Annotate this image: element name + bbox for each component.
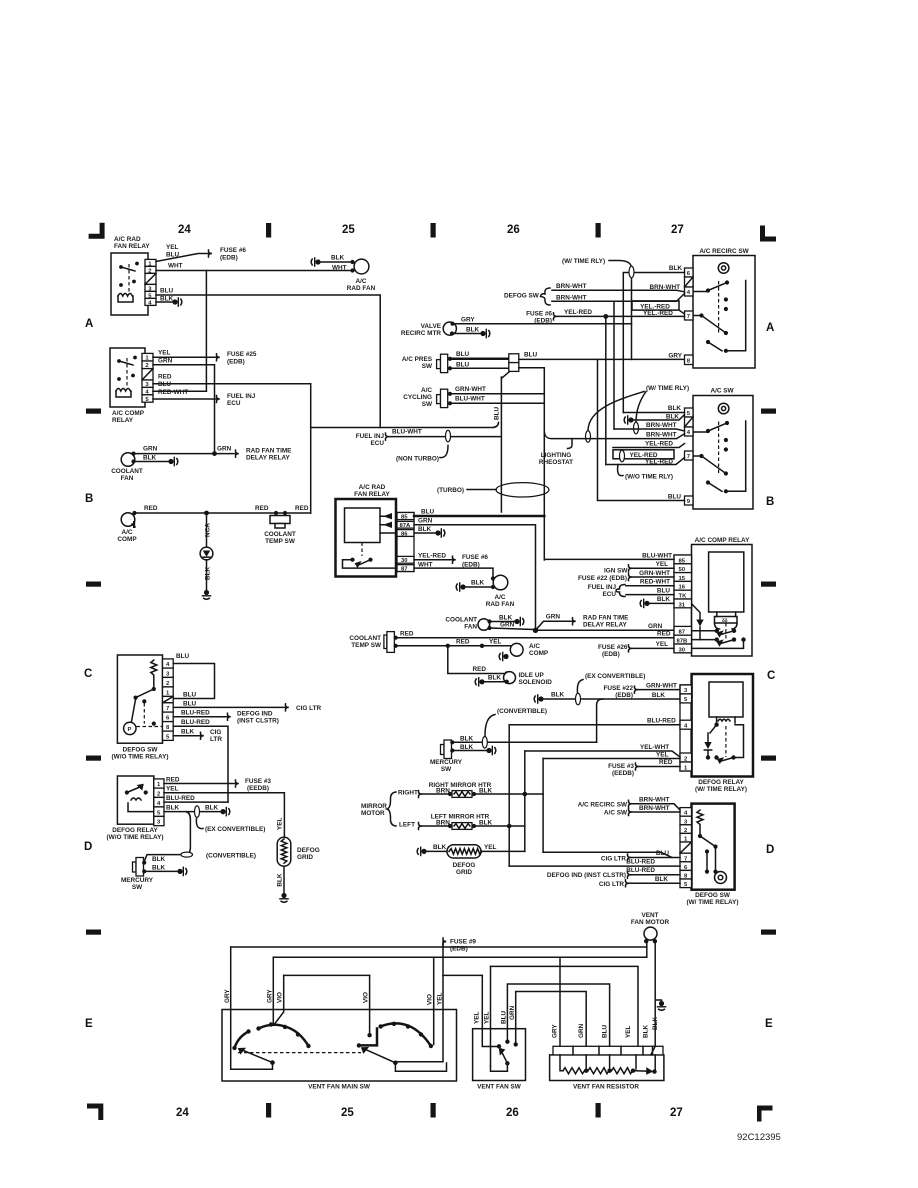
svg-text:BLK: BLK — [551, 692, 565, 699]
right tick C/D — [761, 756, 776, 761]
wire GRN-WHT fuse #22 to K4 pin 15 — [578, 570, 674, 582]
svg-text:BLK: BLK — [499, 615, 513, 622]
svg-text:BLK: BLK — [277, 873, 284, 887]
svg-text:FUSE #22 (EDB): FUSE #22 (EDB) — [578, 575, 627, 582]
pin 9 of A/C SW — [685, 496, 694, 505]
svg-text:GRY: GRY — [461, 317, 475, 324]
svg-text:A: A — [85, 318, 93, 330]
motor: COOLANT FAN (left) — [111, 453, 143, 482]
svg-text:FUEL INJ: FUEL INJ — [588, 584, 617, 591]
svg-text:GRN: GRN — [143, 446, 158, 453]
bottom tick 25/26 — [431, 1103, 436, 1118]
motor: COOLANT FAN (mid) — [445, 615, 533, 631]
right wafer of main sw — [357, 1022, 447, 1072]
inline connector C1 — [509, 352, 538, 372]
svg-text:FAN RELAY: FAN RELAY — [114, 243, 150, 250]
wire BLU-RED pin8 down to defog relay — [173, 719, 228, 802]
svg-text:BRN-WHT: BRN-WHT — [556, 283, 587, 290]
wire BLU-RED to pin 6 — [509, 859, 680, 866]
svg-text:A/C RAD: A/C RAD — [359, 484, 386, 491]
wire BLU-RED long row to defog relay pin 4 — [509, 718, 680, 867]
svg-text:COOLANT: COOLANT — [349, 635, 381, 642]
slash pin defog sw — [163, 696, 174, 702]
bus GRY row B to resistor — [273, 956, 647, 958]
unused slash A/C SW — [685, 417, 694, 427]
compressor: A/C COMP (mid) — [499, 643, 549, 661]
svg-text:FAN: FAN — [121, 475, 134, 482]
pin 1 of K1 — [145, 259, 156, 267]
svg-text:RECIRC MTR: RECIRC MTR — [401, 330, 442, 337]
corner mark top-left — [89, 223, 105, 239]
svg-text:MERCURY: MERCURY — [430, 759, 463, 766]
pin 87A of K3 — [397, 521, 414, 529]
svg-text:BRN-WHT: BRN-WHT — [646, 432, 677, 439]
solenoid: IDLE UP SOLENOID — [448, 646, 552, 687]
wire BLU pin4 K2 — [153, 381, 206, 391]
wire BRN-WHT a/c recirc sw tag to pin 4 — [578, 797, 680, 811]
svg-text:RAD FAN TIME: RAD FAN TIME — [583, 615, 629, 622]
pin 4 of A/C RECIRC SW — [685, 287, 694, 296]
pin 5 defog relay — [154, 807, 164, 817]
svg-text:BLK: BLK — [418, 526, 432, 533]
pin 86 of K3 — [397, 530, 414, 538]
svg-text:A: A — [766, 322, 774, 334]
svg-text:BLU-WHT: BLU-WHT — [455, 396, 485, 403]
pin 31 of K4 — [674, 599, 692, 608]
wire BLK valve recirc to ground — [452, 327, 490, 339]
motor M: A/C RAD FAN — [347, 259, 376, 292]
wire VIO1 to left wafer — [275, 975, 284, 1024]
svg-text:GRN: GRN — [158, 358, 173, 365]
svg-text:(EDB): (EDB) — [227, 359, 245, 366]
tag (EX CONVERTIBLE) — [196, 819, 265, 834]
svg-text:BLK: BLK — [669, 265, 683, 272]
bottom tick 24/25 — [266, 1103, 271, 1118]
svg-text:FAN MOTOR: FAN MOTOR — [631, 919, 670, 926]
pin 7 of defog sw — [163, 703, 174, 712]
svg-text:DELAY RELAY: DELAY RELAY — [246, 455, 291, 462]
relay K1: A/C RAD FAN RELAY (left) — [111, 236, 150, 315]
svg-text:GRN: GRN — [509, 1005, 516, 1020]
wire BLU connector to A/C SW pin 9 vertical and RECIRC pin 8 — [519, 358, 686, 360]
svg-text:ECU: ECU — [371, 440, 385, 447]
tag DEFOG SW with brace — [504, 288, 550, 305]
svg-text:BRN-WHT: BRN-WHT — [639, 797, 670, 804]
svg-text:(EX CONVERTIBLE): (EX CONVERTIBLE) — [205, 826, 265, 833]
svg-text:RAD FAN TIME: RAD FAN TIME — [246, 448, 292, 455]
wire GRY to recirc pin 8 — [668, 353, 682, 360]
svg-text:GRN: GRN — [546, 614, 561, 621]
svg-text:GRY: GRY — [267, 989, 274, 1003]
svg-text:LTR: LTR — [210, 736, 222, 743]
svg-text:VIO: VIO — [277, 992, 284, 1003]
corner mark bottom-left — [87, 1104, 103, 1121]
svg-text:BLU: BLU — [183, 701, 197, 708]
svg-text:RED-WHT: RED-WHT — [158, 389, 188, 396]
svg-text:COOLANT: COOLANT — [111, 468, 143, 475]
pin 3 of K2 — [142, 380, 153, 388]
svg-text:SW: SW — [132, 884, 143, 891]
svg-text:RED: RED — [255, 505, 269, 512]
svg-text:SW: SW — [441, 766, 452, 773]
pin 1 defog relay right — [680, 762, 692, 771]
wire BLK cig ltr to pin 5 — [599, 876, 680, 888]
svg-text:BLU-WHT: BLU-WHT — [642, 553, 672, 560]
svg-text:BLU-RED: BLU-RED — [166, 795, 195, 802]
pin 7 of A/C SW — [685, 451, 694, 460]
pin 85 of K3 — [397, 513, 414, 521]
svg-text:A/C: A/C — [355, 278, 366, 285]
svg-text:VENT: VENT — [641, 912, 658, 919]
svg-text:SOLENOID: SOLENOID — [519, 679, 553, 686]
wire YEL-RED to A/C SW pin 7 — [606, 458, 685, 466]
svg-text:MIRROR: MIRROR — [361, 803, 387, 810]
wire BLK ground to A/C RAD FAN — [311, 255, 354, 273]
svg-text:(TURBO): (TURBO) — [437, 487, 464, 494]
wire BRN-WHT to A/C SW pin 4 — [614, 422, 685, 431]
svg-text:YEL: YEL — [166, 786, 179, 793]
right tick A/B — [761, 409, 776, 414]
pin 15 of K4 — [674, 573, 692, 582]
tag (W/ TIME RLY) for A/C SW with curves — [586, 385, 690, 442]
svg-text:25: 25 — [341, 1107, 354, 1119]
svg-text:BLK: BLK — [205, 805, 219, 812]
relay K4: A/C COMP RELAY (right) — [692, 537, 753, 656]
svg-text:BLK: BLK — [643, 1024, 650, 1038]
wire BLU pin4 loop back — [173, 653, 214, 699]
motor: VENT FAN MOTOR — [631, 912, 670, 943]
pin 7 of A/C RECIRC SW — [685, 311, 694, 320]
svg-text:(CONVERTIBLE): (CONVERTIBLE) — [206, 853, 256, 860]
svg-text:GRN-WHT: GRN-WHT — [455, 386, 486, 393]
vertical BLU feed to rad fan relay pin 85 — [500, 377, 502, 512]
svg-text:BLK: BLK — [466, 327, 480, 334]
svg-text:86: 86 — [401, 531, 408, 537]
svg-text:GRN: GRN — [500, 622, 515, 629]
svg-text:(NON TURBO): (NON TURBO) — [396, 456, 439, 463]
svg-text:A/C RAD: A/C RAD — [114, 236, 141, 243]
wire YEL-RED fuse #6 to recirc pin 7 — [526, 309, 684, 465]
svg-text:YEL: YEL — [656, 752, 669, 759]
pin 8 of defog sw — [163, 722, 174, 732]
svg-text:D: D — [766, 844, 774, 856]
svg-text:DEFOG RELAY: DEFOG RELAY — [112, 827, 158, 834]
pin 4 of K1 — [145, 298, 156, 306]
wire vent fan motor left lead — [646, 941, 648, 957]
wire WHT pin2 K1 to A/C RAD FAN — [156, 263, 353, 271]
svg-text:BLU: BLU — [668, 494, 682, 501]
svg-text:92C12395: 92C12395 — [737, 1132, 781, 1143]
svg-text:A/C RECIRC SW: A/C RECIRC SW — [578, 802, 628, 809]
switch: VENT FAN MAIN SW — [222, 1010, 457, 1091]
pin column defog relay right — [680, 685, 692, 771]
wire BLU-WHT to K4 pin 85 — [544, 553, 674, 560]
switch: A/C SW — [693, 388, 753, 510]
wire BRN-WHT a/c sw tag to pin 4 — [604, 805, 680, 817]
svg-text:(W/ TIME RLY): (W/ TIME RLY) — [562, 258, 605, 265]
pin 3 of K1 — [145, 284, 156, 292]
svg-text:GRN-WHT: GRN-WHT — [639, 570, 670, 577]
svg-text:VENT FAN SW: VENT FAN SW — [477, 1084, 522, 1091]
wire BLU pin85 K3 — [414, 509, 544, 517]
pin 87 of K4 — [674, 626, 692, 635]
wire YEL-RED row into slash — [613, 441, 685, 448]
node: GRN junction to comp relay pin 87 — [533, 614, 674, 634]
svg-text:YEL: YEL — [474, 1011, 481, 1024]
pin column of K4 — [674, 555, 692, 653]
svg-text:SW: SW — [422, 401, 433, 408]
heater: RIGHT MIRROR HTR — [422, 782, 543, 797]
switch: VENT FAN SW — [473, 966, 526, 1090]
svg-text:YEL: YEL — [158, 350, 171, 357]
svg-text:BLK: BLK — [166, 805, 180, 812]
pin 4 defog sw right — [680, 808, 692, 817]
tag (NON TURBO) — [396, 446, 448, 463]
pin 2 defog sw right — [680, 825, 692, 834]
svg-text:YEL: YEL — [489, 639, 502, 646]
wire BLU-RED pin4 — [164, 795, 228, 802]
svg-text:FUSE #22: FUSE #22 — [604, 685, 634, 692]
svg-text:A/C COMP: A/C COMP — [112, 410, 145, 417]
fuse #9 EDB tag and feed — [397, 938, 483, 1062]
wire RED coolant temp sw to comp relay pin 87B — [396, 631, 675, 638]
svg-text:30: 30 — [679, 647, 686, 653]
svg-text:A/C RECIRC SW: A/C RECIRC SW — [699, 248, 749, 255]
svg-text:COOLANT: COOLANT — [445, 617, 477, 624]
svg-text:RED: RED — [456, 639, 470, 646]
pin 7 defog sw right — [680, 853, 692, 862]
svg-text:BLK: BLK — [488, 675, 502, 682]
svg-text:RED: RED — [659, 759, 673, 766]
svg-text:CIG: CIG — [210, 729, 221, 736]
bus GRY drop to resistor GRY pin — [559, 957, 561, 1046]
svg-text:87A: 87A — [400, 523, 412, 529]
svg-text:A/C COMP RELAY: A/C COMP RELAY — [695, 537, 750, 544]
svg-text:TEMP SW: TEMP SW — [351, 642, 382, 649]
svg-text:(EX CONVERTIBLE): (EX CONVERTIBLE) — [585, 673, 645, 680]
svg-text:DEFOG IND: DEFOG IND — [237, 711, 273, 718]
pin 1 of defog sw — [163, 687, 174, 697]
wire BLK pin86 K3 to ground — [414, 526, 445, 538]
svg-text:(EDB): (EDB) — [220, 255, 238, 262]
svg-text:26: 26 — [507, 224, 520, 236]
pin 2 defog relay — [154, 788, 164, 797]
svg-text:DEFOG: DEFOG — [297, 847, 320, 854]
wire WHT pin87 K3 to a/c rad fan — [414, 562, 493, 579]
wire BLK pin4 K1 to ground — [156, 296, 182, 307]
svg-text:YEL: YEL — [484, 1011, 491, 1024]
svg-text:NCA: NCA — [205, 523, 212, 537]
svg-text:RED: RED — [400, 631, 414, 638]
svg-text:DEFOG RELAY: DEFOG RELAY — [698, 779, 744, 786]
svg-text:FUSE #26: FUSE #26 — [598, 644, 628, 651]
svg-text:A/C: A/C — [494, 594, 505, 601]
wire BLU vent fan sw to resistor BLU pin — [507, 984, 609, 1046]
wire RED pin1 to fuse #3 — [164, 777, 271, 793]
svg-text:C: C — [84, 668, 92, 680]
svg-text:YEL-RED: YEL-RED — [645, 441, 673, 448]
svg-text:DEFOG SW: DEFOG SW — [695, 892, 731, 899]
switch: COOLANT TEMP SW (mid) — [349, 632, 397, 653]
pin 30 of K3 — [397, 556, 414, 564]
pin 5 defog relay right — [680, 694, 692, 703]
svg-text:(EEDB): (EEDB) — [247, 785, 269, 792]
svg-text:E: E — [765, 1018, 773, 1030]
wire VIO2 to right wafer — [363, 975, 372, 1037]
pin 8 of A/C RECIRC SW — [685, 355, 694, 365]
pin 3 defog relay right — [680, 685, 692, 694]
svg-text:A/C SW: A/C SW — [710, 388, 734, 395]
bottom tick 26/27 — [596, 1103, 601, 1118]
wire BLU-RED defog ind to pin 8 — [547, 867, 680, 879]
switch: MERCURY SW (right) — [430, 736, 597, 774]
svg-text:BLU: BLU — [657, 587, 671, 594]
svg-text:FUSE #9: FUSE #9 — [450, 939, 476, 946]
boxed wire YEL-RED (recirc) — [632, 301, 685, 314]
ground stub near motor lead — [655, 1000, 666, 1010]
corner mark top-right — [760, 226, 776, 242]
svg-text:BLK: BLK — [652, 692, 666, 699]
svg-text:ECU: ECU — [227, 400, 241, 407]
svg-text:VALVE: VALVE — [421, 323, 442, 330]
svg-text:WHT: WHT — [332, 265, 347, 272]
wire YEL to defog relay pin 2 — [543, 752, 680, 853]
svg-text:WHT: WHT — [168, 263, 183, 270]
pin 1 defog sw right — [680, 833, 692, 842]
svg-text:GRN: GRN — [578, 1023, 585, 1038]
wire YEL pin1 K2 to fuse 25 — [153, 350, 218, 358]
wire BLK to A/C SW pin 5 — [623, 405, 684, 413]
svg-text:YEL: YEL — [656, 561, 669, 568]
svg-text:YEL-RED: YEL-RED — [418, 553, 446, 560]
svg-text:MERCURY: MERCURY — [121, 877, 154, 884]
relay: DEFOG RELAY (W/ TIME RELAY) — [692, 674, 753, 793]
svg-text:RED-WHT: RED-WHT — [640, 579, 670, 586]
svg-text:VENT FAN RESISTOR: VENT FAN RESISTOR — [573, 1084, 639, 1091]
svg-text:27: 27 — [671, 224, 684, 236]
svg-text:FUSE #6: FUSE #6 — [220, 247, 246, 254]
pin 87B of K4 — [674, 635, 692, 644]
pin 5 defog sw right — [680, 879, 692, 888]
node: WHT/BLU branch vertical — [205, 271, 207, 392]
svg-text:24: 24 — [176, 1107, 189, 1119]
switch: DEFOG SW (W/O TIME RELAY) — [112, 655, 169, 761]
svg-text:BLU: BLU — [602, 1024, 609, 1038]
svg-text:85: 85 — [401, 515, 408, 521]
bus GRY row A to vent fan motor — [231, 946, 647, 948]
wire RED fuse #9 to defog relay pin 1 — [608, 759, 680, 777]
wire YEL fuse #26 to K4 pin 30 — [598, 641, 674, 658]
switch: A/C RECIRC SW — [693, 248, 755, 368]
wire RED a/c comp to coolant temp sw — [132, 505, 310, 515]
svg-text:BLU: BLU — [494, 406, 501, 420]
svg-text:VIO: VIO — [427, 994, 434, 1005]
pin 4 of defog sw — [163, 659, 174, 668]
svg-text:BLU: BLU — [176, 653, 190, 660]
svg-text:(EEDB): (EEDB) — [612, 770, 634, 777]
motor: VALVE RECIRC MTR — [401, 322, 457, 337]
wire GRY1 into main sw to left wafer pivot — [224, 947, 275, 1069]
tag (W/ TIME RLY) top — [562, 258, 634, 359]
svg-text:IDLE UP: IDLE UP — [519, 672, 545, 679]
wire BRN-WHT defog sw to recirc pin 4 — [552, 283, 685, 292]
wire BLK coolant fan to ground — [131, 455, 177, 467]
svg-text:A/C: A/C — [529, 643, 540, 650]
svg-text:LIGHTING: LIGHTING — [541, 452, 572, 459]
pin column of K3 — [397, 513, 414, 572]
svg-text:A/C SW: A/C SW — [604, 810, 628, 817]
svg-text:DELAY RELAY: DELAY RELAY — [583, 622, 628, 629]
top tick 26/27 — [596, 223, 601, 238]
left wafer of main sw — [232, 1022, 310, 1062]
switch: MERCURY SW (left) — [121, 856, 187, 891]
wire BLU-WHT cycling sw — [450, 396, 544, 404]
wire YEL ign sw to K4 pin 50 — [604, 561, 674, 575]
svg-text:BLU: BLU — [456, 351, 470, 358]
svg-text:GRN: GRN — [418, 518, 433, 525]
wire BLK ground to K4 pin 31 — [640, 596, 674, 608]
node NCA diode branch — [200, 513, 213, 599]
heater: LEFT MIRROR HTR — [422, 814, 525, 830]
svg-text:27: 27 — [670, 1107, 683, 1119]
svg-text:CYCLING: CYCLING — [403, 394, 432, 401]
svg-text:31: 31 — [679, 602, 686, 608]
wire BRN-WHT lighting rheostat row — [539, 432, 685, 467]
svg-text:RELAY: RELAY — [112, 417, 134, 424]
left tick C/D — [86, 756, 101, 761]
svg-text:BLU: BLU — [160, 288, 174, 295]
top tick 24/25 — [266, 223, 271, 238]
svg-text:GRN-WHT: GRN-WHT — [646, 683, 677, 690]
wire BLU pres sw lower to inline connector — [450, 362, 509, 369]
tag (EX CONVERTIBLE) right — [577, 673, 645, 693]
svg-text:(EDB): (EDB) — [534, 318, 552, 325]
wire BLK branch to mercury sw — [144, 812, 256, 862]
svg-text:FUEL INJ: FUEL INJ — [227, 393, 256, 400]
wire BLU pin5 K1 long run — [156, 288, 380, 428]
relay K3: A/C RAD FAN RELAY (mid) — [336, 484, 398, 577]
svg-text:C: C — [767, 670, 775, 682]
pin 3 defog relay — [154, 816, 164, 825]
unused slash A/C RECIRC SW — [685, 277, 694, 287]
svg-text:RED: RED — [657, 631, 671, 638]
svg-text:DEFOG IND (INST CLSTR): DEFOG IND (INST CLSTR) — [547, 872, 626, 879]
wire BLU to A/C SW pin 9 — [598, 494, 685, 501]
svg-text:RED: RED — [158, 374, 172, 381]
pin 4 defog relay — [154, 797, 164, 807]
wire RED pin3 K2 long run down — [153, 374, 311, 514]
svg-text:E: E — [85, 1018, 93, 1030]
pin 2 defog relay right — [680, 753, 692, 762]
svg-text:BLK: BLK — [652, 1016, 659, 1030]
svg-text:D: D — [84, 841, 92, 853]
wire from mercury sw curving up to BLK row — [597, 699, 603, 742]
svg-text:FUSE #3: FUSE #3 — [608, 763, 634, 770]
unused pin slash of K2 — [142, 369, 153, 380]
svg-text:FUSE #25: FUSE #25 — [227, 351, 257, 358]
svg-text:FAN RELAY: FAN RELAY — [354, 491, 390, 498]
svg-text:RIGHT: RIGHT — [398, 790, 418, 797]
resistor block: VENT FAN RESISTOR — [550, 1016, 664, 1090]
svg-text:BLK: BLK — [143, 455, 157, 462]
right tick D/E — [761, 930, 776, 935]
svg-text:(W/ TIME RLY): (W/ TIME RLY) — [646, 385, 689, 392]
svg-text:BLK: BLK — [152, 856, 166, 863]
svg-text:BLK: BLK — [181, 729, 195, 736]
left tick B/C — [86, 582, 101, 587]
svg-text:FUEL INJ: FUEL INJ — [356, 433, 385, 440]
svg-text:BLK: BLK — [205, 566, 212, 580]
